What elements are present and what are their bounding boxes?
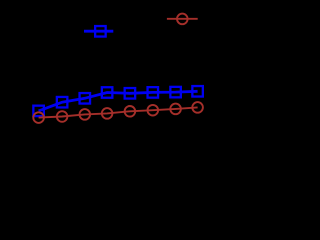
legend sample line (red series) (167, 18, 198, 20)
blue curve square markers (33, 86, 203, 116)
legend sample line (blue series) (84, 30, 113, 33)
blue curve line (39, 91, 198, 111)
legend marker circle (red series) (177, 14, 188, 25)
legend marker square (blue series) (95, 26, 106, 37)
red curve circle markers (33, 102, 203, 123)
red curve line (39, 107, 198, 117)
